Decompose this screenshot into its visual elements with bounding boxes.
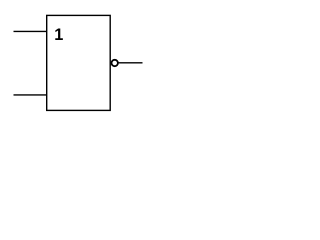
inversion bubble (112, 60, 118, 66)
svg-text:1: 1 (54, 26, 63, 44)
wire input B (14, 94, 47, 96)
gate U1 body (IEC rectangle) (47, 15, 110, 110)
wire output (118, 62, 142, 64)
wire input A (14, 30, 47, 32)
